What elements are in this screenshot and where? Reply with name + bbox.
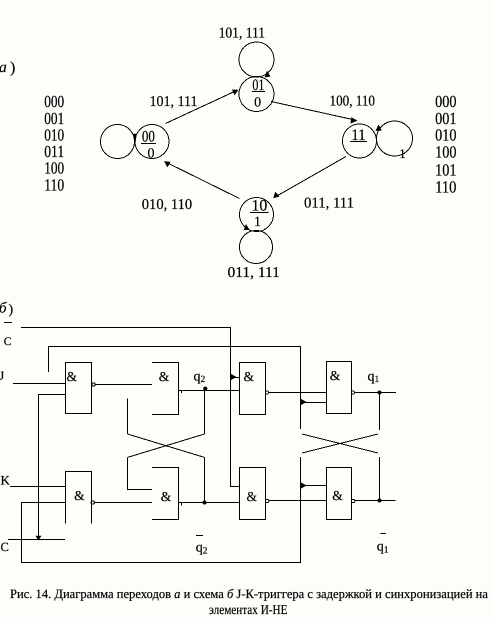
svg-text:&: &	[332, 488, 343, 503]
svg-text:элементах И-НЕ: элементах И-НЕ	[209, 602, 288, 617]
svg-text:б: б	[0, 301, 7, 317]
svg-text:0: 0	[254, 95, 261, 110]
svg-text:1: 1	[254, 215, 261, 230]
svg-text:010, 110: 010, 110	[142, 197, 192, 213]
svg-text:110: 110	[435, 177, 456, 196]
svg-text:C: C	[4, 336, 12, 348]
svg-text:&: &	[243, 369, 254, 384]
svg-text:101, 111: 101, 111	[219, 26, 266, 42]
svg-text:100: 100	[435, 143, 456, 162]
svg-text:&: &	[330, 368, 341, 383]
svg-text:0: 0	[148, 147, 155, 162]
svg-text:&: &	[159, 369, 170, 384]
svg-text:011, 111: 011, 111	[304, 196, 354, 212]
svg-text:): )	[10, 60, 15, 77]
svg-text:00: 00	[142, 128, 155, 145]
svg-text:01: 01	[252, 77, 264, 94]
svg-text:Рис. 14. Диаграмма переходов а: Рис. 14. Диаграмма переходов а и схема б…	[10, 587, 488, 601]
svg-text:&: &	[247, 489, 258, 504]
svg-text:): )	[9, 303, 14, 318]
svg-text:100, 110: 100, 110	[330, 94, 376, 110]
svg-text:a: a	[0, 59, 7, 76]
svg-text:&: &	[161, 489, 172, 504]
svg-text:110: 110	[44, 175, 64, 194]
svg-text:10: 10	[252, 197, 268, 214]
svg-text:011, 111: 011, 111	[228, 265, 280, 281]
svg-text:&: &	[74, 488, 85, 503]
svg-text:K: K	[1, 473, 11, 488]
svg-text:11: 11	[351, 127, 366, 144]
svg-text:C: C	[1, 540, 9, 554]
svg-text:&: &	[66, 369, 77, 384]
svg-text:J: J	[0, 369, 5, 383]
svg-text:1: 1	[399, 146, 406, 161]
svg-text:101, 111: 101, 111	[150, 94, 198, 110]
